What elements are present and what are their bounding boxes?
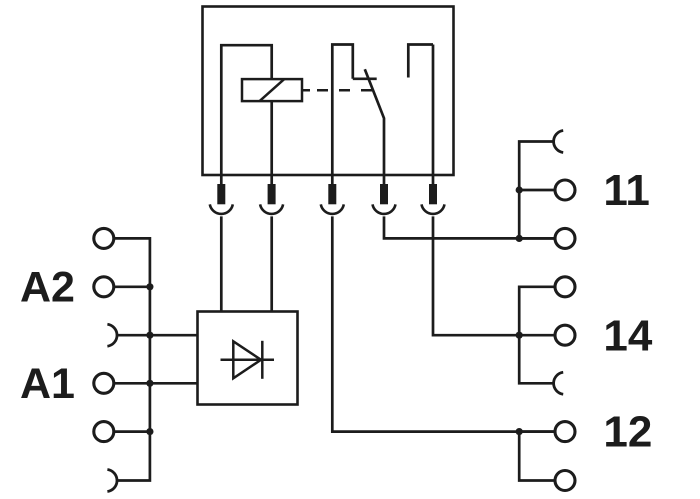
junction (A1 row) [146,380,153,387]
terminal circle 11 group bottom [555,228,575,248]
junction (11 row) [516,186,523,193]
socket 2 [260,204,283,214]
svg-text:A2: A2 [20,264,75,312]
wire (A1 row to suppressor box) [115,382,198,385]
wire (terminal 3 to 12 group) [332,216,554,431]
wire (common pole, terminal 3) [332,45,353,185]
plug-in contact pin 3 [328,184,336,204]
wire (left row 5 stub) [115,430,150,433]
terminal circle 14 [555,325,575,345]
junction (A2 row) [146,283,153,290]
terminal circle 11 [555,180,575,200]
relay coil [242,79,302,101]
svg-text:14: 14 [603,311,652,360]
NC fixed contact bar [353,77,377,80]
11 group bus [519,142,554,239]
terminal circle A1 [94,373,114,393]
wire (coil bottom to terminal 2) [270,101,273,184]
junction (left arc row) [146,332,153,339]
plug-in contact pin 2 [268,184,276,204]
movable contact lever [365,69,384,184]
svg-text:12: 12 [603,408,652,457]
left terminal bus [115,238,150,480]
plug-in contact pin 4 [380,184,388,204]
terminal arc left row 3 [107,324,117,346]
terminal arc 11 group top [554,131,564,153]
wire (terminal 4 to 11 group) [384,216,555,238]
terminal circle left row 1 [94,228,114,248]
terminal circle A2 [94,277,114,297]
terminal circle 14 group top [555,277,575,297]
junction (left row 5) [146,428,153,435]
terminal arc left row 6 [107,470,117,492]
wire (terminal 1 to suppressor box) [220,216,223,311]
terminal circle left row 5 [94,422,114,442]
NO fixed contact stub [408,45,433,78]
wire (coil loop: left vertical, terminal 1 to top rail) [221,45,271,184]
wire (NO leg to terminal 5) [432,45,435,185]
junction (11 group bottom) [516,235,523,242]
socket 5 [422,204,445,214]
junction (14 row) [516,332,523,339]
socket 1 [210,204,233,214]
14 group bus [519,287,554,384]
plug-in contact pin 1 [217,184,225,204]
terminal circle 12 group bottom [555,471,575,491]
wire (terminal 2 to suppressor box) [270,216,273,311]
svg-text:11: 11 [603,166,650,215]
relay outline box [203,7,454,176]
junction (12 row) [516,428,523,435]
wire (A2 stub) [115,285,150,288]
wire (left arc row to suppressor box) [117,334,198,337]
wire (terminal 5 to 14 group) [433,216,555,335]
mechanical linkage (dashed) [302,89,372,92]
socket 4 [373,204,396,214]
terminal circle 12 [555,422,575,442]
12 group bus [519,432,554,481]
plug-in contact pin 5 [429,184,437,204]
svg-text:A1: A1 [20,360,75,408]
terminal arc 14 group bottom [554,372,564,394]
socket 3 [321,204,344,214]
diode D1 [221,341,275,379]
suppressor diode box [198,312,298,405]
wire (11 stub) [519,189,554,192]
